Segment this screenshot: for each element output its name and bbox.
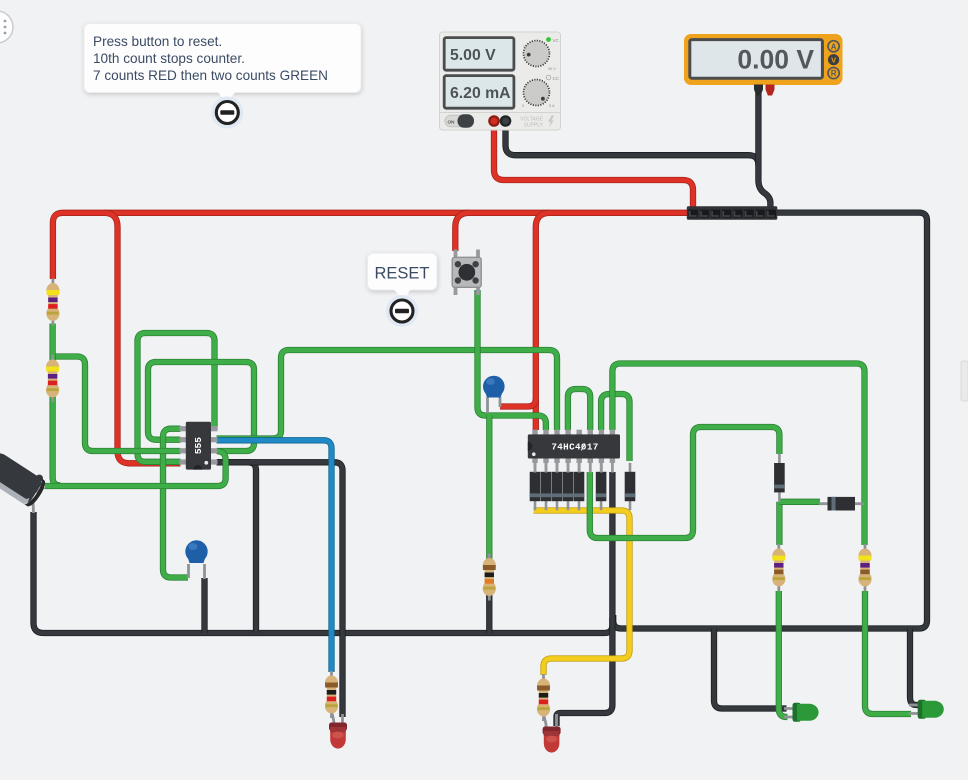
lead stubs: green LED2 [909, 704, 918, 707]
multimeter M1 [684, 34, 843, 96]
wire: red stub from capacitor C1 to red drop [500, 399, 536, 407]
capacitor C2 (ceramic, blue) [185, 540, 207, 563]
wire: black 4017 pin 8 down then to red LED2 cathode [557, 472, 613, 726]
wire: red power bus from R1 up across the top to header strip [53, 213, 688, 279]
lead stubs: green LED1 [784, 707, 793, 710]
wire: green diode Da to R7a and Db branch [776, 502, 782, 545]
diode D7 [625, 463, 636, 510]
wire: green loop 4017 pin T7 to diode D8 [601, 394, 629, 461]
svg-text:6.20 mA: 6.20 mA [450, 85, 511, 102]
wire: black resistor R5 to ground rail [486, 591, 492, 633]
svg-text:555: 555 [193, 437, 204, 454]
diode D5 [574, 463, 585, 510]
wire: yellow diode bus under 4017 to resistor R6 [534, 511, 630, 676]
note tooltip (top left) [84, 24, 361, 104]
resistor R6 [537, 674, 550, 721]
lead stubs: capacitor C2 [187, 564, 190, 578]
resistor R1 [46, 279, 59, 326]
annotation marker 2 (reset) [386, 295, 418, 327]
op-amp/timer U1 555 [180, 422, 218, 470]
wire: green junction down to resistor R5 [486, 416, 492, 563]
svg-text:SUPPLY: SUPPLY [524, 123, 544, 129]
diode D4 [563, 463, 574, 510]
svg-text:A: A [831, 42, 837, 51]
UI scrollbar fragment (right edge) [961, 361, 968, 401]
svg-text:Press button to reset.: Press button to reset. [93, 34, 222, 49]
wire: black ground rail left (electrolytic cap to 4017 GND) [34, 512, 613, 633]
LED LED1 (red) [329, 723, 347, 749]
wire: green 4017 pin B6 loop to diode Da [590, 427, 780, 538]
svg-text:0: 0 [522, 104, 524, 108]
diode Da [774, 454, 785, 501]
wire: black ground rail drop to green LED2 [910, 629, 919, 706]
wire: red drop to 74HC4017 pin 16 [536, 213, 550, 430]
UI handle (left edge) [0, 11, 13, 43]
wire: black ground rail drop to green LED1 [714, 629, 787, 709]
wire: black from multimeter probe down to header strip [758, 92, 770, 208]
resistor R2 [46, 355, 59, 402]
wire: green loop 4017 pin T4 to T6 [568, 389, 590, 430]
svg-text:R: R [831, 69, 837, 78]
wire: black 555 pin 4R across to red LED1 cathode [217, 462, 343, 717]
wire: black capacitor C2 negative lead to ground rail [201, 578, 207, 633]
wire: green loop 555 pin 1R to pin 4L [138, 333, 215, 462]
svg-text:ON: ON [448, 119, 456, 124]
wire: green R7b to green LED2 [865, 591, 911, 714]
diode D6 [596, 463, 607, 510]
svg-text:5 A: 5 A [549, 104, 555, 108]
LED LED4 (green) [918, 700, 944, 719]
lead stubs: red LED2 [544, 712, 547, 728]
capacitor C1 (ceramic, blue) [483, 376, 505, 398]
svg-text:0.00 V: 0.00 V [737, 45, 814, 75]
resistor R7 [772, 544, 785, 591]
resistor R4 [325, 671, 338, 718]
diode D3 [552, 463, 563, 510]
wire: green 4017 pin T8 loop to Db/R7b chain [612, 364, 864, 546]
wire: green from pushbutton to 4017 pin 15 / C1 / R5 junction [478, 290, 546, 430]
diode D2 [541, 463, 552, 510]
IC U2 74HC4017 [528, 430, 620, 473]
resistor R5 [483, 554, 496, 601]
annotation marker 1 [211, 97, 243, 129]
wire: green 555 pin 3L to resistor divider R1/R2 junction [53, 357, 181, 452]
svg-text:7 counts RED then two counts G: 7 counts RED then two counts GREEN [93, 68, 328, 83]
diode Db (horizontal) [819, 497, 864, 511]
svg-text:74HC4017: 74HC4017 [551, 441, 598, 452]
lead stubs: capacitor C1 [486, 397, 489, 413]
wire: green loop 555 pin 3R to pin 2L [148, 362, 254, 451]
svg-text:RESET: RESET [374, 265, 429, 283]
wire: green 555 pin 1L down to capacitor C2 [163, 429, 188, 578]
svg-text:10th count stops counter.: 10th count stops counter. [93, 51, 245, 66]
resistor R8 [858, 544, 871, 591]
power supply PS1 [440, 32, 561, 130]
wire: red drop to 555 pin 4L (VCC) [104, 213, 181, 463]
svg-text:V: V [831, 56, 836, 65]
wire: green 555 pin 2R to 4017 pin 14 (under blue) [217, 350, 558, 439]
wire: green R7a to green LED1 [779, 591, 788, 717]
wire: black from power supply - terminal [506, 124, 759, 165]
svg-text:30 V: 30 V [548, 67, 556, 71]
svg-text:CC: CC [553, 76, 560, 81]
electrolytic capacitor C3 [36, 488, 45, 493]
LED LED2 (red) [543, 727, 561, 753]
lead stubs: red LED1 [332, 709, 335, 724]
wire: green R2 bottom to electrolytic cap + and 555 pin 3R [53, 395, 61, 486]
svg-text:5.00 V: 5.00 V [450, 47, 496, 64]
pushbutton S1 [452, 250, 481, 296]
wire: black ground rail right (strip to lower rail) [613, 213, 927, 629]
diode D1 [530, 463, 541, 510]
header strip (power rail connector) [687, 206, 778, 220]
wire: blue 555 pin 2R to resistor R4 [217, 440, 332, 672]
LED LED3 (green) [793, 703, 819, 722]
wire: red from power supply + terminal to header strip [494, 124, 693, 208]
svg-text:VC: VC [553, 38, 560, 43]
RESET tooltip [368, 253, 438, 301]
wire: black 555 pin 4R to ground rail drop [217, 462, 257, 633]
wire: red drop to pushbutton [455, 213, 469, 251]
wire: green R1 bottom to R2 top junction [49, 324, 55, 364]
